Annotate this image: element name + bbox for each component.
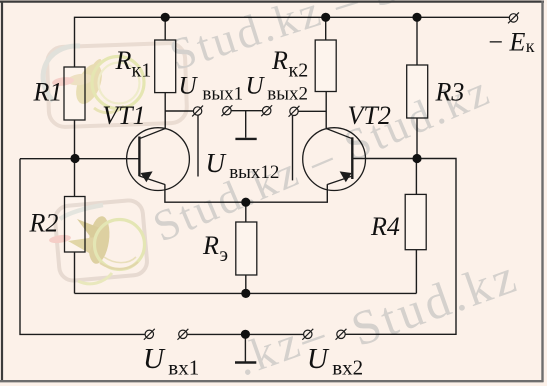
- wire input1 mid segment: [187, 333, 303, 335]
- wire probe2 below out2: [292, 116, 294, 181]
- green ring upper: [92, 57, 144, 109]
- ground stub lower: [244, 334, 246, 361]
- wire left input branch: [20, 159, 145, 335]
- tail curl upper: [94, 106, 124, 113]
- wire R4 top: [415, 159, 417, 195]
- green ring lower: [95, 220, 145, 270]
- svg-text:к: к: [526, 36, 535, 56]
- terminal -Ek: [508, 12, 519, 23]
- node dot rail Rk2: [321, 13, 330, 22]
- wire bottom rail: [75, 292, 417, 294]
- terminal in2 right: [336, 329, 347, 340]
- wire terminal out2 to VT2 collector: [298, 110, 327, 112]
- wire VT1 base: [20, 158, 139, 160]
- stamp top teal tint lower: [60, 205, 103, 219]
- node dot bottom rail: [241, 289, 250, 298]
- wire Rk2 top: [325, 17, 327, 40]
- bird body upper: [71, 60, 107, 107]
- watermark text row A: [164, 0, 530, 80]
- wire Rk1 top: [164, 17, 166, 40]
- svg-text:к2: к2: [289, 60, 309, 82]
- terminal mid2: [261, 105, 272, 116]
- svg-text:U: U: [143, 343, 166, 375]
- resistor R1: [64, 67, 85, 120]
- watermark text row B: [146, 65, 498, 251]
- teal swoosh upper: [43, 46, 80, 101]
- watermark text row C prefix: [229, 306, 335, 385]
- bird body lower: [86, 215, 112, 265]
- bird beak upper: [91, 59, 101, 72]
- node dot emitter: [241, 198, 250, 207]
- ground bar lower: [235, 361, 256, 363]
- svg-text:вх2: вх2: [332, 356, 363, 380]
- terminal mid1: [221, 105, 232, 116]
- node dot rail Rk1: [161, 13, 170, 22]
- node dot base VT1: [70, 154, 79, 163]
- bird wing lower-left lower: [68, 237, 96, 253]
- resistor R2: [65, 197, 86, 253]
- svg-text:э: э: [220, 244, 229, 266]
- bird wing tan upper: [66, 72, 93, 87]
- resistor Re: [236, 222, 257, 275]
- resistor R4: [405, 194, 426, 249]
- wire to terminal out1: [165, 110, 193, 112]
- wire emitter rail: [165, 184, 327, 202]
- wire Re top stub: [245, 202, 247, 222]
- ground bar upper: [235, 138, 256, 140]
- node dot base VT2: [412, 154, 421, 163]
- watermark logo upper: [43, 43, 187, 128]
- swirl arc lower 1: [100, 262, 138, 269]
- svg-text:R4: R4: [370, 212, 400, 241]
- green ring inner upper: [99, 63, 140, 104]
- watermark text row C: [344, 247, 525, 357]
- svg-text:вх1: вх1: [168, 356, 199, 380]
- pink streak upper: [52, 76, 75, 87]
- wire base node to right branch: [345, 159, 456, 335]
- wire R4 bottom: [415, 250, 417, 294]
- wire Re bottom stub: [245, 275, 247, 293]
- resistor R3: [407, 65, 428, 118]
- svg-text:R: R: [202, 231, 219, 260]
- stamp outline lower: [54, 199, 148, 281]
- terminal in1 right: [177, 329, 188, 340]
- wire Rk2 to VT2 collector: [325, 92, 327, 129]
- resistor Rk1: [155, 40, 176, 93]
- pink streak lower: [49, 234, 72, 245]
- svg-text:вых2: вых2: [267, 84, 308, 105]
- wire R2 bottom: [74, 252, 76, 293]
- terminal out1: [192, 106, 203, 117]
- tail curl lower: [78, 273, 112, 284]
- transistor VT2: [303, 128, 366, 191]
- svg-text:− E: − E: [487, 28, 526, 57]
- wire R1 to junction and R2: [74, 120, 76, 197]
- svg-text:R: R: [271, 46, 288, 75]
- terminal in1 left: [144, 329, 155, 340]
- wire between mid terminals: [231, 110, 262, 112]
- svg-text:U: U: [246, 73, 266, 100]
- wire R3 bottom to base node: [416, 118, 418, 159]
- watermark logo lower: [49, 199, 149, 284]
- svg-text:вых1: вых1: [202, 84, 243, 105]
- terminal out2: [289, 106, 300, 117]
- wire probe1 below out1: [197, 115, 199, 176]
- wire top rail: [75, 17, 510, 67]
- wire Rk1 to VT1 collector: [164, 93, 166, 129]
- ground stub upper: [245, 111, 247, 138]
- wire VT2 base: [352, 158, 417, 160]
- node dot rail R3: [412, 13, 421, 22]
- node dot input ground: [241, 330, 250, 339]
- wire R3 top: [416, 17, 418, 65]
- terminal in2 left: [302, 329, 313, 340]
- transistor VT1: [127, 128, 190, 191]
- resistor Rk2: [315, 40, 336, 92]
- stamp outline upper: [47, 43, 188, 128]
- swirl arc lower 2: [104, 257, 136, 263]
- bird wing upper-left lower: [77, 219, 100, 239]
